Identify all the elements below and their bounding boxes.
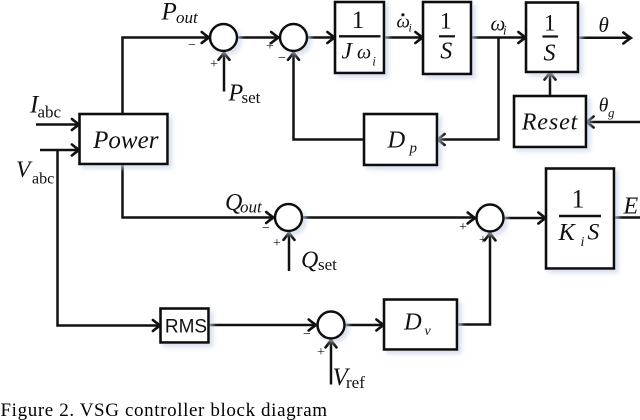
svg-text:i: i: [372, 54, 376, 69]
svg-text:+: +: [210, 57, 218, 72]
svg-text:+: +: [266, 39, 274, 54]
svg-text:S: S: [440, 39, 452, 65]
svg-text:+: +: [317, 345, 325, 360]
svg-text:abc: abc: [32, 171, 54, 188]
svg-text:P: P: [161, 0, 177, 26]
svg-text:Q: Q: [301, 248, 318, 274]
svg-text:−: −: [278, 51, 286, 66]
svg-text:D: D: [403, 309, 422, 336]
svg-text:i: i: [581, 235, 585, 250]
svg-text:1: 1: [352, 7, 365, 34]
svg-text:D: D: [387, 127, 406, 154]
svg-text:i: i: [503, 23, 507, 38]
svg-text:abc: abc: [38, 103, 62, 122]
svg-text:out: out: [240, 198, 263, 217]
svg-text:J: J: [342, 39, 354, 65]
svg-text:+: +: [273, 236, 281, 251]
svg-text:1: 1: [440, 9, 452, 35]
svg-text:1: 1: [572, 185, 585, 214]
svg-text:set: set: [242, 88, 261, 107]
svg-text:ref: ref: [346, 373, 365, 392]
svg-text:set: set: [318, 255, 337, 274]
svg-text:out: out: [176, 8, 199, 27]
svg-text:−: −: [188, 38, 196, 53]
svg-text:i: i: [409, 21, 412, 35]
svg-text:E: E: [623, 194, 639, 220]
svg-text:−: −: [262, 221, 270, 236]
svg-text:Power: Power: [92, 127, 159, 154]
svg-text:g: g: [608, 105, 615, 120]
svg-text:ω: ω: [357, 42, 371, 64]
svg-text:+: +: [459, 220, 467, 235]
svg-text:+: +: [479, 233, 487, 248]
svg-text:θ: θ: [599, 13, 609, 37]
svg-text:1: 1: [544, 10, 556, 35]
svg-text:V: V: [16, 157, 33, 183]
svg-text:S: S: [544, 40, 556, 66]
svg-text:S: S: [588, 220, 600, 246]
svg-text:p: p: [409, 141, 418, 157]
svg-text:Reset: Reset: [521, 110, 579, 136]
svg-text:−: −: [303, 327, 311, 342]
svg-text:K: K: [558, 219, 577, 246]
svg-text:RMS: RMS: [165, 317, 207, 338]
svg-text:v: v: [425, 324, 432, 339]
